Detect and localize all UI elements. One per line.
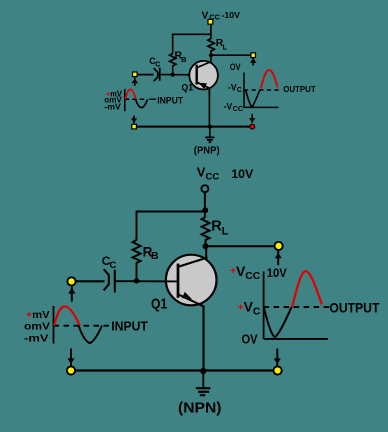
svg-text:-mV: -mV xyxy=(24,334,49,345)
input waveform (top) axis xyxy=(124,89,126,111)
svg-text:(PNP): (PNP) xyxy=(194,146,220,157)
wire output (top) xyxy=(211,54,252,56)
svg-text:B: B xyxy=(151,251,159,262)
label +VCC (bottom) xyxy=(230,263,261,282)
svg-text:OV: OV xyxy=(242,332,258,347)
arrow input port (top) xyxy=(132,77,138,86)
svg-text:OUTPUT: OUTPUT xyxy=(283,84,316,94)
junction emitter-rail xyxy=(208,124,212,128)
wire emitter down xyxy=(208,89,210,128)
arrow rail-right port xyxy=(249,114,255,123)
arrow rail-right port (bottom) xyxy=(274,349,281,367)
input waveform (top) dashed centerline xyxy=(125,98,156,100)
terminal rail-left (yellow square) xyxy=(131,124,137,130)
output waveform (bottom) bottom line xyxy=(264,338,328,340)
capacitor CC (top) curved plate xyxy=(154,68,158,81)
svg-text:10V: 10V xyxy=(231,167,254,181)
transistor Q1 (NPN) xyxy=(166,255,217,306)
terminal rail-left (yellow circle, bottom) xyxy=(67,366,75,374)
svg-text:INPUT: INPUT xyxy=(111,319,148,333)
junction cap-base node (bottom) xyxy=(134,278,139,283)
output waveform (top) axis xyxy=(243,73,245,108)
svg-text:(NPN): (NPN) xyxy=(178,400,222,417)
wire capacitor to base (bottom) xyxy=(116,280,178,282)
input waveform (bottom) dashed centerline xyxy=(54,325,110,327)
terminal OUTPUT (yellow circle, bottom) xyxy=(275,242,283,250)
svg-text:Q1: Q1 xyxy=(151,296,167,312)
wire down to RB (bottom) xyxy=(136,211,138,241)
junction collector node (bottom) xyxy=(203,243,209,249)
wire VCC down to RL xyxy=(210,25,212,39)
svg-text:10V: 10V xyxy=(267,266,287,280)
arrow output port (bottom) xyxy=(275,250,282,265)
junction emitter-rail (bottom) xyxy=(200,368,206,374)
input terminal (yellow circle, bottom) xyxy=(67,277,75,285)
label -VC (top) xyxy=(228,82,242,94)
output waveform (bottom) black negative half xyxy=(264,307,292,337)
label RB (top) xyxy=(175,49,188,64)
svg-text:C: C xyxy=(237,87,242,94)
wire capacitor to base xyxy=(161,74,197,76)
label VCC -10V supply xyxy=(202,10,241,21)
wire bias horizontal xyxy=(172,33,212,35)
wire input to capacitor (bottom) xyxy=(76,280,105,282)
ground rail (bottom) xyxy=(71,369,278,371)
svg-text:L: L xyxy=(223,43,228,52)
junction supply node (bottom) xyxy=(202,207,208,213)
output waveform (top) black negative half xyxy=(246,90,260,107)
resistor RB (top) xyxy=(170,54,176,66)
wire input to capacitor xyxy=(138,74,154,76)
svg-text:omV: omV xyxy=(24,321,50,332)
wire RB bottom to cap node xyxy=(136,263,138,282)
svg-text:-V: -V xyxy=(228,82,237,93)
label +mV (bottom) xyxy=(26,310,50,321)
svg-text:OUTPUT: OUTPUT xyxy=(329,300,380,315)
label RL (bottom) xyxy=(211,218,228,237)
wire down to RB xyxy=(172,34,174,55)
ground rail (top) xyxy=(132,126,253,128)
label -VCC (top) xyxy=(224,102,243,114)
arrow input port (bottom) xyxy=(68,286,75,302)
svg-text:B: B xyxy=(181,55,187,64)
resistor RL (bottom) xyxy=(202,217,210,240)
svg-text:Q1: Q1 xyxy=(182,83,194,93)
wire emitter down (bottom) xyxy=(202,306,204,372)
ground symbol (bottom) xyxy=(196,372,211,395)
input waveform (bottom) black negative half xyxy=(79,326,102,344)
input waveform (bottom) red positive half xyxy=(54,306,80,325)
label CC (bottom) xyxy=(102,254,117,270)
capacitor CC (top) straight plate xyxy=(159,68,161,81)
junction collector node xyxy=(209,53,213,57)
svg-text:-mV: -mV xyxy=(104,102,121,111)
svg-text:CC: CC xyxy=(245,271,261,282)
svg-text:CC: CC xyxy=(233,106,244,113)
output waveform (bottom) axis xyxy=(263,272,265,340)
svg-text:C: C xyxy=(155,61,160,68)
input waveform (bottom) axis xyxy=(53,306,55,344)
output waveform (top) dashed line xyxy=(244,89,282,91)
terminal OUTPUT top (yellow square) xyxy=(250,52,256,58)
terminal VCC (yellow square) xyxy=(207,19,213,25)
arrow output port (top) xyxy=(250,58,256,66)
wire VCC down (bottom) xyxy=(204,192,206,217)
svg-text:C: C xyxy=(253,306,261,317)
svg-text:-V: -V xyxy=(224,102,233,113)
wire RB bottom to base node xyxy=(172,66,174,76)
wire RL to collector xyxy=(210,51,212,63)
svg-text:INPUT: INPUT xyxy=(157,96,183,106)
input waveform (top) red positive half xyxy=(125,89,136,99)
arrow rail-left port (bottom) xyxy=(67,349,74,367)
capacitor CC (bottom) curved plate xyxy=(104,269,109,290)
svg-text:mV: mV xyxy=(32,310,50,321)
terminal rail-right (red circle) xyxy=(249,124,255,130)
wire RL to collector node xyxy=(205,240,207,249)
wire output (bottom) xyxy=(206,245,276,247)
label +VC (bottom) xyxy=(238,299,261,318)
label RL (top) xyxy=(216,37,228,52)
wire collector up from transistor xyxy=(205,246,207,258)
label CC (top) xyxy=(149,56,160,68)
resistor RL (top) xyxy=(208,39,214,52)
svg-text:C: C xyxy=(110,259,117,270)
svg-text:L: L xyxy=(222,225,229,237)
svg-text:CC: CC xyxy=(206,171,220,182)
svg-text:+: + xyxy=(26,310,32,321)
wire bias horizontal (bottom) xyxy=(136,211,205,213)
label +mV (top) xyxy=(106,89,123,98)
label RB (bottom) xyxy=(143,245,159,262)
input terminal (yellow square) xyxy=(132,71,138,77)
terminal VCC (open circle, bottom) xyxy=(201,185,208,192)
junction base node xyxy=(171,73,175,77)
svg-text:OV: OV xyxy=(230,62,241,73)
svg-text:-10V: -10V xyxy=(222,10,241,20)
input waveform (top) black negative half xyxy=(136,99,148,107)
label VCC 10V supply (bottom) xyxy=(197,164,254,182)
output waveform (top) red positive half xyxy=(261,70,278,89)
terminal rail-right (yellow circle, bottom) xyxy=(274,366,282,374)
arrow rail-left port xyxy=(131,116,137,124)
resistor RB (bottom) xyxy=(133,240,141,263)
output waveform (bottom) dashed line xyxy=(264,306,330,308)
transistor Q1 (PNP) xyxy=(189,61,218,90)
svg-text:V: V xyxy=(197,164,206,179)
output waveform (bottom) red positive half xyxy=(292,271,322,307)
output waveform (top) bottom line xyxy=(244,106,279,108)
ground symbol (top) xyxy=(205,127,214,142)
capacitor CC (bottom) straight plate xyxy=(114,270,116,293)
